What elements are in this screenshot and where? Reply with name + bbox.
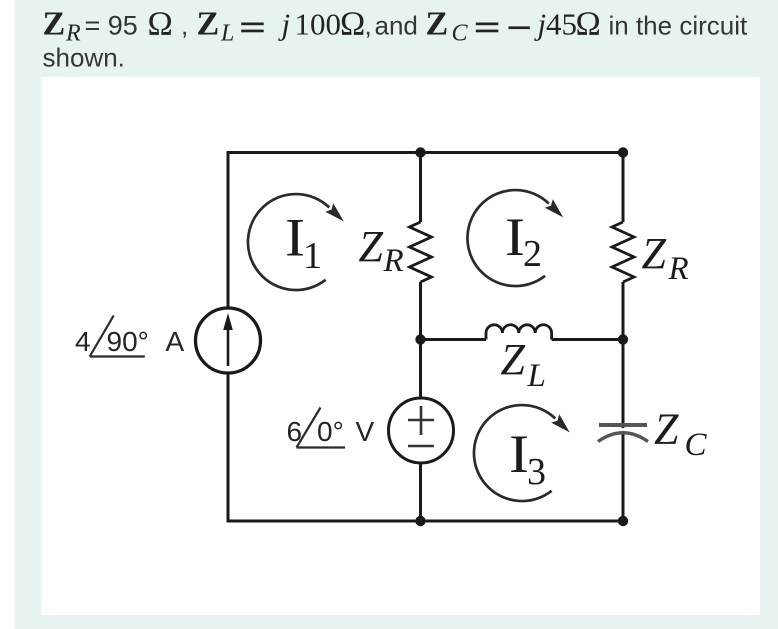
wire bottom <box>228 520 623 523</box>
inductor ZL coil <box>486 325 552 340</box>
svg-text:and: and <box>375 10 418 40</box>
label ZR middle <box>359 222 404 279</box>
svg-text:4: 4 <box>75 326 91 357</box>
svg-text:Z: Z <box>197 5 220 42</box>
label ZR right <box>642 229 689 287</box>
headline: Z_R = 95 ohm <box>43 5 189 46</box>
svg-text:45: 45 <box>546 6 577 41</box>
current source circle <box>196 308 261 373</box>
node dot bottom right <box>618 516 628 526</box>
svg-text:j: j <box>534 6 547 41</box>
angle symbol for voltage source <box>297 408 346 448</box>
label ZL <box>501 335 546 394</box>
svg-text:Z: Z <box>501 335 526 384</box>
node dot mid middle <box>415 334 425 344</box>
wire left upper <box>227 151 230 307</box>
svg-text:C: C <box>452 20 469 46</box>
label current source value 4 angle 90 A <box>75 326 185 357</box>
node dot top right <box>618 147 628 157</box>
svg-text:Z: Z <box>642 229 667 278</box>
node dot mid right <box>618 334 628 344</box>
voltage source circle <box>389 398 454 463</box>
wire left lower <box>227 375 230 523</box>
svg-text:Ω: Ω <box>148 5 173 42</box>
svg-text:V: V <box>356 416 375 447</box>
svg-text:90°: 90° <box>107 326 149 357</box>
label ZC <box>654 405 708 464</box>
svg-text:L: L <box>220 20 234 46</box>
svg-text:1: 1 <box>303 235 322 277</box>
svg-text:Ω: Ω <box>340 5 365 42</box>
wire mid-horizontal left stub <box>421 338 487 341</box>
svg-text:C: C <box>685 427 708 463</box>
wire top <box>228 151 623 154</box>
current source arrow <box>223 313 233 366</box>
voltage source plus sign <box>408 406 434 435</box>
mesh arrow I2 head <box>545 199 563 217</box>
label voltage source value 6 angle 0 V <box>287 416 375 447</box>
label I2 <box>505 207 542 275</box>
wire right mid <box>622 282 625 428</box>
svg-text:,: , <box>181 10 188 40</box>
resistor ZR right zigzag <box>612 222 634 282</box>
svg-text:I: I <box>505 207 525 267</box>
headline: Z_L = j100 ohm <box>197 5 418 46</box>
svg-text:0°: 0° <box>317 416 344 447</box>
svg-text:2: 2 <box>523 233 542 275</box>
svg-text:= 95: = 95 <box>85 11 138 41</box>
svg-text:Z: Z <box>426 5 449 42</box>
node dot top middle <box>415 147 425 157</box>
wire right lower <box>622 434 625 521</box>
svg-text:Z: Z <box>359 222 384 271</box>
svg-text:A: A <box>166 326 185 357</box>
label I3 <box>509 424 546 493</box>
svg-text:I: I <box>509 424 529 484</box>
mesh arrow I3 head <box>551 414 569 432</box>
svg-text:,: , <box>365 10 372 40</box>
wire middle vertical lower <box>419 464 422 522</box>
white circuit panel <box>41 77 760 615</box>
svg-text:R: R <box>668 251 689 287</box>
svg-text:100: 100 <box>295 6 342 41</box>
capacitor ZC curved plate <box>598 433 648 442</box>
wire middle vertical mid <box>419 282 422 398</box>
resistor ZR middle zigzag <box>410 222 432 282</box>
node dot bottom middle <box>415 516 425 526</box>
mesh arrow I2 arc <box>467 190 548 286</box>
mesh arrow I1 arc <box>248 194 329 290</box>
capacitor ZC top plate <box>599 423 647 427</box>
label I1 <box>285 208 322 278</box>
voltage source minus sign <box>408 445 434 448</box>
wire right upper <box>622 153 625 223</box>
svg-text:L: L <box>527 358 546 394</box>
mesh arrow I1 head <box>325 203 343 221</box>
headline: Z_C = -j45 ohm in the circuit <box>426 5 748 46</box>
svg-text:Ω: Ω <box>576 5 601 42</box>
svg-text:in the circuit: in the circuit <box>609 10 748 40</box>
svg-text:Z: Z <box>654 405 679 454</box>
svg-text:I: I <box>285 208 305 268</box>
svg-text:R: R <box>383 243 404 279</box>
wire mid-horizontal right stub <box>552 338 623 341</box>
svg-text:3: 3 <box>527 451 546 493</box>
svg-text:j: j <box>278 6 291 41</box>
svg-text:Z: Z <box>43 5 66 42</box>
mesh arrow I3 arc <box>474 405 555 501</box>
angle symbol for current source <box>90 316 145 357</box>
wire middle vertical upper <box>419 153 422 223</box>
svg-text:shown.: shown. <box>43 43 125 73</box>
